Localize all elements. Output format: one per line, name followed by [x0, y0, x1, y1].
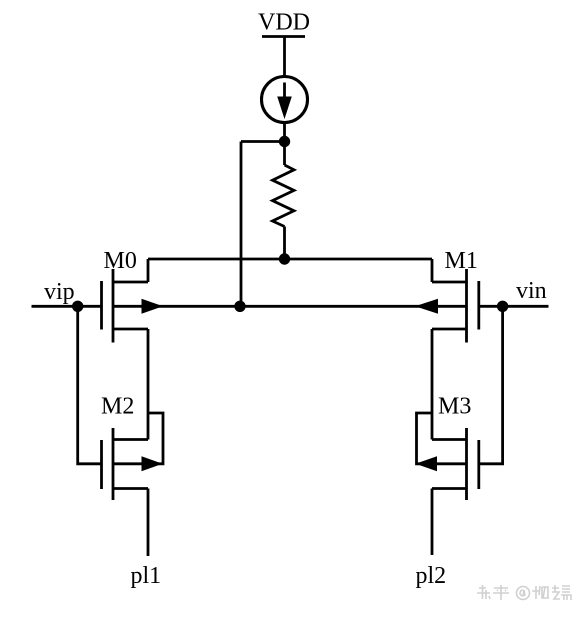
VDD supply bar [262, 35, 305, 38]
svg-text:M3: M3 [438, 394, 471, 420]
transistor M1 [432, 259, 479, 343]
svg-text:pl1: pl1 [131, 563, 162, 589]
wire vin input [479, 305, 549, 308]
node vip junction dot [72, 301, 83, 312]
wire current source to tail node [283, 123, 286, 142]
svg-text:VDD: VDD [258, 10, 310, 36]
watermark zhihu @ruyan [477, 585, 571, 600]
arrow on source line near M0 [142, 299, 164, 314]
arrow on M3 bulk/source [416, 456, 438, 471]
arrow on source line near M1 [415, 299, 438, 314]
node vin junction dot [497, 301, 508, 312]
arrow on M2 bulk/source [142, 456, 163, 471]
wire drain rail M0 to M1 [148, 258, 432, 261]
wire vip input [32, 305, 102, 308]
wire M1 source down to M3 drain [431, 329, 434, 440]
node resistor-bottom junction dot [279, 253, 290, 264]
wire M3 source to pl2 [431, 489, 434, 556]
wire M2 bulk loop to drain [113, 413, 163, 464]
transistor M3 [432, 428, 479, 500]
node tail-bottom junction dot [234, 301, 245, 312]
wire left branch vertical (crosses rail, no connection) [240, 142, 243, 307]
wire M3 bulk loop to drain [417, 413, 467, 464]
current source I0 circle [262, 77, 308, 123]
wire common source line M0 to M1 [113, 305, 467, 308]
wire VDD bar to current source [283, 37, 286, 77]
wire vip down to M2 gate [78, 306, 102, 464]
transistor M0 [102, 259, 149, 343]
svg-text:M1: M1 [445, 248, 478, 274]
node tail-top junction dot [279, 136, 290, 147]
svg-text:M2: M2 [101, 394, 134, 420]
current source I0 arrow [277, 83, 292, 120]
svg-text:vin: vin [516, 278, 547, 304]
resistor R (tail resistor) [273, 142, 295, 260]
wire M2 source to pl1 [147, 489, 150, 557]
wire tail node to left branch [241, 140, 285, 143]
wire vin down to M3 gate [479, 306, 503, 464]
transistor M2 [102, 428, 149, 500]
svg-text:M0: M0 [104, 248, 137, 274]
svg-text:pl2: pl2 [416, 563, 447, 589]
svg-text:vip: vip [44, 279, 75, 305]
wire M0 source down to M2 drain [147, 329, 150, 440]
